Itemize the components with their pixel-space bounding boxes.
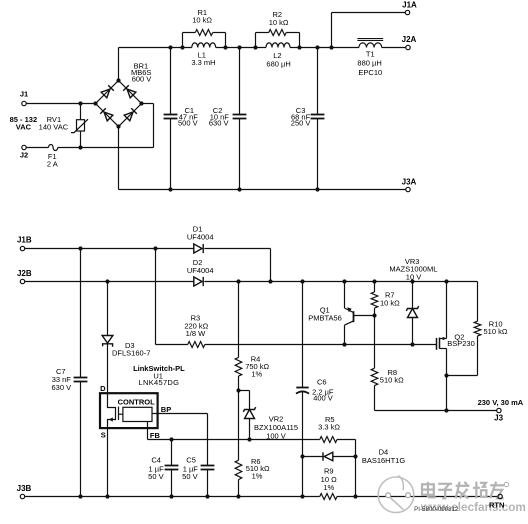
svg-text:RTN: RTN <box>489 500 504 509</box>
node Q1 emitter <box>342 279 346 283</box>
fuse F1 2 A <box>49 145 58 151</box>
wire to J1A <box>331 13 333 48</box>
svg-text:10 kΩ: 10 kΩ <box>269 18 289 27</box>
svg-text:880 µH: 880 µH <box>357 59 381 68</box>
U1 pin BP <box>152 413 208 415</box>
resistor R1 10 k <box>182 33 184 48</box>
wire Q2 source to output row <box>446 376 448 411</box>
capacitor C7 33 nF 630 V <box>80 249 82 378</box>
node R1/L1 right <box>223 45 227 49</box>
node RV1 bottom junction <box>78 145 82 149</box>
svg-text:J3B: J3B <box>17 484 32 493</box>
capacitor C2 10 nF 630 V <box>239 48 241 115</box>
node RV1 top junction <box>78 101 82 105</box>
node C4 bottom <box>169 494 173 498</box>
svg-text:680 µH: 680 µH <box>266 60 290 69</box>
svg-text:FB: FB <box>150 431 161 440</box>
wire RTN row <box>25 496 320 498</box>
node C6 top <box>300 279 304 283</box>
connector RTN <box>498 494 502 498</box>
svg-text:250 V: 250 V <box>291 119 311 128</box>
diode D1 UF4004 <box>194 244 202 253</box>
svg-text:J2A: J2A <box>402 35 417 44</box>
diode D3 DFLS160-7 <box>107 282 109 336</box>
svg-text:1/8 W: 1/8 W <box>186 329 207 338</box>
U1 pin S wire <box>107 428 109 496</box>
diode D2 UF4004 <box>194 277 202 286</box>
capacitor C3 68 nF 250 V <box>317 48 319 115</box>
resistor R7 10 k <box>374 282 376 293</box>
node VR3 top <box>410 279 414 283</box>
svg-text:PI-5800-090812: PI-5800-090812 <box>414 506 459 513</box>
node J1A branch <box>329 45 333 49</box>
svg-text:10 V: 10 V <box>406 272 421 281</box>
svg-text:J2B: J2B <box>17 269 32 278</box>
svg-text:10 kΩ: 10 kΩ <box>192 15 212 24</box>
inductor T1 880 uH EPC10 <box>359 43 382 48</box>
connector J1A <box>405 10 409 14</box>
resistor R10 510 k <box>477 282 479 322</box>
node D1 join <box>268 279 272 283</box>
svg-text:600 V: 600 V <box>132 74 152 83</box>
node VR2 anode <box>247 437 251 441</box>
capacitor C1 47 nF 500 V <box>170 48 172 115</box>
svg-text:3.3 kΩ: 3.3 kΩ <box>318 422 340 431</box>
varistor RV1 140 VAC <box>80 104 82 120</box>
wire J2B row <box>25 281 194 283</box>
node R2/L2 left <box>253 45 257 49</box>
svg-text:1%: 1% <box>251 369 262 378</box>
svg-text:510 kΩ: 510 kΩ <box>380 376 404 385</box>
svg-text:50 V: 50 V <box>148 472 163 481</box>
wire R3 row <box>156 344 188 346</box>
svg-text:T1: T1 <box>366 49 375 58</box>
transistor Q1 PMBTA56 <box>344 282 346 309</box>
node R1/L1 left <box>180 45 184 49</box>
svg-text:BAS16HT1G: BAS16HT1G <box>362 456 406 465</box>
capacitor C4 1 uF 50 V <box>171 440 173 466</box>
svg-text:VAC: VAC <box>16 123 32 132</box>
wire DC bus <box>204 281 477 283</box>
connector J2B <box>20 279 24 283</box>
svg-text:CONTROL: CONTROL <box>118 398 155 407</box>
U1 pin FB <box>147 422 149 440</box>
inductor L1 3.3 mH <box>192 43 216 48</box>
wire top rail <box>119 47 192 49</box>
node C6/D4/R9 left <box>300 454 304 458</box>
svg-text:50 V: 50 V <box>182 472 197 481</box>
svg-text:J2: J2 <box>20 151 28 160</box>
resistor R8 510 k <box>374 316 376 369</box>
wire J1 to bridge left <box>26 103 95 105</box>
svg-text:S: S <box>101 431 106 440</box>
resistor R4 750 k 1% <box>238 282 240 358</box>
resistor R2 10 k <box>255 33 257 48</box>
svg-text:3.3 mH: 3.3 mH <box>191 58 215 67</box>
transistor Q2 BSP230 <box>436 338 438 350</box>
svg-text:1%: 1% <box>323 483 334 492</box>
svg-text:J1A: J1A <box>402 1 417 10</box>
svg-text:BSP230: BSP230 <box>447 339 475 348</box>
bridge rectifier BR1 MB6S 600 V <box>96 81 142 127</box>
svg-text:630 V: 630 V <box>51 383 71 392</box>
diode D4 BAS16HT1G <box>303 456 323 458</box>
svg-text:500 V: 500 V <box>178 119 198 128</box>
wire R4 to R6 <box>238 391 240 461</box>
node C4 top <box>169 437 173 441</box>
connector J2A <box>406 45 410 49</box>
node output junction <box>444 408 448 412</box>
connector J2 <box>22 145 26 149</box>
node Q2 drain <box>444 279 448 283</box>
wire D1 out <box>204 248 270 250</box>
svg-text:C5: C5 <box>186 456 196 465</box>
svg-text:510 kΩ: 510 kΩ <box>484 327 508 336</box>
node C7 bottom <box>78 494 82 498</box>
svg-text:2 A: 2 A <box>47 159 58 168</box>
svg-text:LNK457DG: LNK457DG <box>139 378 180 387</box>
svg-text:R9: R9 <box>324 466 334 475</box>
node R4/VR2 <box>236 388 240 392</box>
wire detour up to bridge right vertex <box>153 104 155 148</box>
node Q1 collector <box>342 342 346 346</box>
connector J3B <box>20 494 24 498</box>
resistor R3 220 k 1/8 W <box>188 342 205 348</box>
svg-text:EPC10: EPC10 <box>358 68 382 77</box>
wire J2 to fuse <box>26 147 48 149</box>
node R7 top <box>372 279 376 283</box>
svg-text:100 V: 100 V <box>266 431 286 440</box>
capacitor C6 2.2 uF 400 V <box>302 282 304 388</box>
U1 CONTROL block <box>123 407 152 421</box>
wire bridge top to rail <box>118 48 120 81</box>
wire fuse to bridge right detour <box>58 147 154 149</box>
svg-text:J1: J1 <box>20 90 28 99</box>
svg-text:630 V: 630 V <box>209 119 229 128</box>
svg-text:400 V: 400 V <box>313 393 333 402</box>
zener VR3 MAZS1000ML 10 V <box>412 282 414 309</box>
node VR3 bottom <box>410 342 414 346</box>
connector J3 output 230 V 30 mA <box>497 408 501 412</box>
node R6 bottom <box>236 494 240 498</box>
node S bottom <box>105 494 109 498</box>
svg-text:D: D <box>100 384 106 393</box>
node feed to R3 <box>153 246 157 250</box>
connector J1 <box>22 101 26 105</box>
watermark logo circle <box>378 477 414 513</box>
svg-text:UF4004: UF4004 <box>187 232 214 241</box>
svg-text:230 V, 30 mA: 230 V, 30 mA <box>478 398 524 407</box>
svg-text:UF4004: UF4004 <box>187 266 214 275</box>
node D4 right <box>353 454 357 458</box>
zener VR2 BZX100A115 100 V <box>239 390 250 392</box>
svg-text:DFLS160-7: DFLS160-7 <box>112 348 150 357</box>
node R4 top <box>236 279 240 283</box>
wire J1B row <box>25 248 194 250</box>
svg-text:L2: L2 <box>273 51 281 60</box>
inductor L2 680 uH <box>266 43 290 48</box>
wire FB row <box>148 439 320 441</box>
svg-text:C6: C6 <box>317 378 327 387</box>
wire bridge bottom to bottom rail <box>118 127 120 190</box>
node Q2 source / R10 <box>444 373 448 377</box>
node R2/L2 right <box>297 45 301 49</box>
node Q1 base / R7 / R8 <box>372 313 376 317</box>
wire J1B branch down to R3 row <box>155 249 157 345</box>
watermark text <box>422 482 436 498</box>
svg-text:BP: BP <box>161 405 171 414</box>
svg-text:PMBTA56: PMBTA56 <box>308 314 342 323</box>
node D3 top <box>105 279 109 283</box>
wire BP branch <box>207 414 209 466</box>
svg-text:1%: 1% <box>252 471 263 480</box>
resistor R6 510 k 1% <box>235 460 242 479</box>
U1 internal MOSFET <box>108 393 116 428</box>
svg-text:140 VAC: 140 VAC <box>39 123 69 132</box>
resistor R5 3.3 k <box>320 437 337 443</box>
node C5 bottom <box>205 494 209 498</box>
connector J1B <box>20 246 24 250</box>
resistor R9 body <box>320 494 337 500</box>
svg-text:J1B: J1B <box>17 236 32 245</box>
wire output row <box>375 410 497 412</box>
svg-text:J3: J3 <box>494 413 503 422</box>
connector J3A <box>406 187 410 191</box>
node C7 top <box>78 246 82 250</box>
wire R5 down <box>355 440 357 457</box>
svg-text:J3A: J3A <box>402 177 417 186</box>
capacitor C5 1 uF 50 V <box>201 465 215 467</box>
wire bottom rail <box>119 189 406 191</box>
svg-text:C4: C4 <box>151 456 161 465</box>
svg-text:10 kΩ: 10 kΩ <box>380 299 400 308</box>
